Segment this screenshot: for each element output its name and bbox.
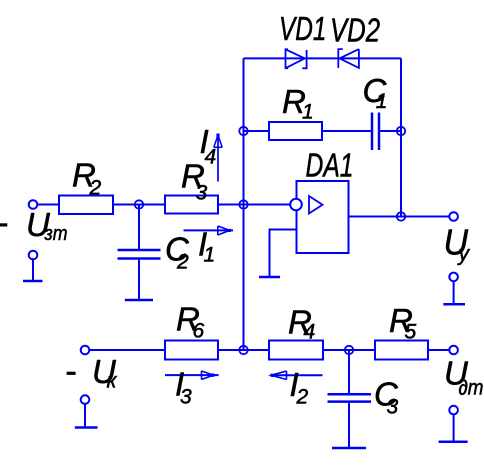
wire output line bbox=[349, 216, 450, 218]
wire input line bbox=[37, 204, 291, 206]
svg-text:3: 3 bbox=[196, 182, 208, 205]
ground C2 bbox=[125, 299, 153, 302]
svg-text:VD1: VD1 bbox=[279, 10, 327, 47]
svg-text:1: 1 bbox=[376, 90, 388, 113]
terminal Uzt input bbox=[29, 200, 38, 209]
wire feedback C1 right bbox=[379, 130, 401, 132]
wire right feedback vertical bbox=[400, 58, 402, 216]
node E C1 right bbox=[397, 127, 405, 135]
svg-text:y: y bbox=[457, 243, 471, 266]
ground Uy bbox=[443, 281, 465, 304]
capacitor C1 bbox=[372, 113, 379, 151]
arrow I4 bbox=[214, 134, 222, 182]
wire C2 branch upper bbox=[138, 205, 140, 251]
label minus Uk bbox=[67, 372, 76, 375]
ground Uk bbox=[75, 404, 98, 428]
svg-text:1: 1 bbox=[302, 101, 314, 124]
wire feedback R1 line left bbox=[244, 130, 373, 132]
node B feedback left top bbox=[239, 127, 247, 135]
node G C3 junction bbox=[345, 346, 353, 354]
resistor R2 bbox=[59, 196, 113, 215]
diode VD2 bbox=[338, 49, 359, 68]
svg-text:5: 5 bbox=[405, 321, 417, 344]
ground op-amp bbox=[259, 276, 280, 279]
diode VD1 bbox=[286, 49, 307, 68]
capacitor C2 bbox=[118, 250, 161, 259]
resistor R5 bbox=[375, 341, 428, 360]
terminal Uy output bbox=[449, 212, 458, 221]
node A input junction C2 bbox=[135, 200, 143, 208]
ground Udt bbox=[439, 414, 468, 441]
capacitor C3 bbox=[328, 394, 372, 401]
svg-text:к: к bbox=[107, 370, 118, 393]
wire C3 branch upper bbox=[348, 350, 350, 394]
op-amp inversion bubble bbox=[290, 199, 302, 211]
svg-text:6: 6 bbox=[193, 319, 205, 342]
ground C3 bbox=[332, 447, 366, 450]
resistor R4 bbox=[269, 341, 323, 360]
svg-text:2: 2 bbox=[176, 251, 189, 274]
wire bottom line bbox=[89, 349, 450, 351]
wire diode top line bbox=[244, 57, 402, 59]
terminal Udt output bbox=[449, 346, 458, 355]
svg-text:∂m: ∂m bbox=[459, 377, 484, 400]
terminal Uy ground pin bbox=[449, 273, 458, 282]
svg-text:зm: зm bbox=[44, 223, 68, 245]
terminal Udt ground pin bbox=[449, 406, 458, 415]
node F output junction bbox=[397, 212, 405, 220]
terminal Uzt ground pin bbox=[29, 251, 38, 260]
wire C2 branch lower bbox=[138, 259, 140, 300]
svg-text:3: 3 bbox=[387, 396, 399, 419]
ground Uzt bbox=[23, 259, 43, 281]
arrow I1 bbox=[184, 226, 234, 235]
label minus Uzt bbox=[0, 223, 7, 226]
svg-text:2: 2 bbox=[296, 386, 309, 409]
arrow I3 bbox=[165, 371, 219, 380]
svg-text:4: 4 bbox=[205, 146, 217, 169]
arrow I2 bbox=[271, 371, 323, 380]
node C summing junction bbox=[239, 200, 247, 208]
resistor R3 bbox=[165, 196, 218, 214]
op-amp U DA1 bbox=[297, 181, 349, 253]
terminal Uk input bbox=[81, 346, 90, 355]
wire C3 branch lower bbox=[348, 402, 350, 448]
svg-text:4: 4 bbox=[304, 321, 316, 344]
terminal Uk ground pin bbox=[81, 395, 90, 404]
wire op-amp noninverting input bbox=[270, 230, 297, 277]
resistor R1 bbox=[269, 122, 322, 140]
svg-text:DA1: DA1 bbox=[306, 146, 354, 183]
resistor R6 bbox=[165, 341, 218, 360]
svg-text:VD2: VD2 bbox=[330, 12, 380, 49]
wire left feedback vertical bbox=[243, 58, 245, 350]
svg-text:2: 2 bbox=[89, 177, 102, 200]
svg-text:3: 3 bbox=[180, 386, 192, 409]
svg-text:1: 1 bbox=[204, 244, 216, 267]
node D bottom left vertical bbox=[239, 346, 247, 354]
op-amp triangle bbox=[309, 196, 323, 214]
